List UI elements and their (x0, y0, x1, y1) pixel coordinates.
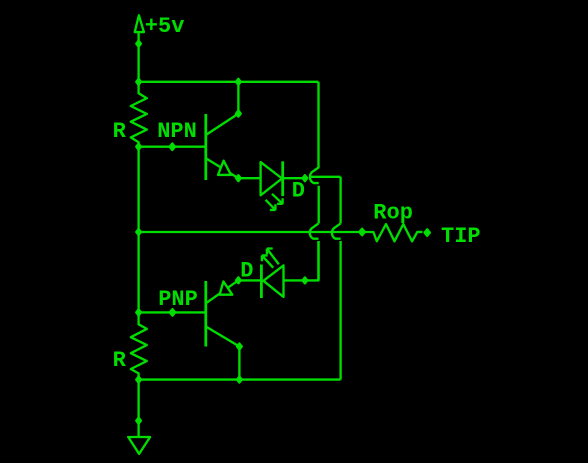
junction emitter Q1 / diode wire (236, 175, 241, 181)
wire +5V stub down to top rail (137, 32, 139, 82)
LED D2 emission arrow 2 (262, 255, 273, 267)
junction LED D2 wire / wire A (303, 277, 308, 283)
LED D1 emission arrow 1 (272, 194, 283, 204)
label D1 (292, 179, 305, 204)
transistor Q1 NPN base bar (204, 114, 207, 180)
wire base NPN (139, 146, 206, 148)
transistor Q2 PNP collector (206, 327, 240, 380)
svg-text:NPN: NPN (157, 119, 197, 144)
junction emitter Q2 / diode wire (236, 277, 241, 283)
label Rop (373, 200, 413, 225)
resistor R2 (131, 312, 147, 379)
junction left rail / base wire 1 (136, 144, 141, 150)
junction top rail / left rail (136, 79, 141, 85)
label D2 (240, 259, 253, 284)
wire ground stub (137, 380, 139, 437)
wire bottom rail (139, 378, 341, 380)
wire emitter Q2 to LED D2 (238, 279, 261, 281)
transistor Q1 NPN collector (206, 82, 239, 135)
hop wire A over middle rail (310, 223, 319, 280)
label NPN (157, 119, 197, 144)
wire A vertical with hop over D1 node (310, 82, 319, 224)
svg-text:R: R (113, 348, 127, 373)
label TIP (441, 224, 481, 249)
wire middle rail (139, 231, 363, 233)
terminal TIP pin dot (425, 229, 430, 236)
LED D2 emission arrow 1 (267, 249, 279, 265)
LED D2 triangle (263, 265, 283, 297)
LED D1 emission arrow 2 (266, 200, 276, 210)
wire emitter to LED D1 anode (238, 177, 260, 179)
LED D1 cathode bar (281, 161, 284, 196)
junction LED D1 wire end (303, 175, 308, 181)
junction bottom rail / left rail (136, 377, 141, 383)
svg-text:Rop: Rop (373, 200, 413, 225)
junction dot below +5V (136, 41, 141, 47)
transistor Q2 PNP base bar (204, 281, 207, 347)
wire top rail (139, 81, 319, 83)
junction collector corner Q2 (237, 344, 242, 350)
wire from D1 node to wire B (310, 176, 341, 178)
wire LED D2 out to wire A (284, 241, 319, 280)
junction middle rail / Rop (359, 229, 364, 236)
label R2 (113, 348, 127, 373)
svg-text:+5v: +5v (145, 14, 185, 39)
junction left rail / middle rail (136, 229, 141, 235)
svg-text:PNP: PNP (158, 287, 198, 312)
junction left rail / base wire 2 (136, 309, 141, 315)
junction top rail / collector riser (236, 79, 241, 85)
ground symbol (128, 437, 150, 454)
wire base PNP (139, 311, 206, 313)
LED D2 cathode bar (260, 265, 263, 299)
power +5V arrow symbol (135, 15, 144, 32)
transistor Q2 PNP emitter arrow (220, 282, 233, 295)
label R1 (113, 119, 127, 144)
resistor Rop (362, 224, 422, 241)
wire LED D1 cathode out (283, 177, 305, 179)
LED D1 triangle (261, 162, 282, 195)
junction above ground (136, 418, 141, 424)
wire left rail middle section (137, 147, 139, 313)
svg-text:R: R (113, 119, 127, 144)
junction base pin NPN (170, 143, 175, 150)
label +5v (145, 14, 185, 39)
transistor Q1 NPN emitter arrow (218, 161, 231, 175)
resistor R1 (131, 82, 147, 147)
svg-text:TIP: TIP (441, 224, 481, 249)
wire B vertical upper (339, 177, 341, 224)
svg-text:D: D (292, 179, 305, 204)
hop wire B over middle rail (332, 223, 341, 379)
junction base pin PNP (170, 309, 175, 316)
junction collector corner Q1 (236, 111, 241, 117)
transistor Q2 PNP emitter (206, 280, 239, 303)
transistor Q1 NPN emitter (206, 158, 239, 178)
junction bottom rail / collector riser Q2 (237, 377, 242, 383)
label PNP (158, 287, 198, 312)
